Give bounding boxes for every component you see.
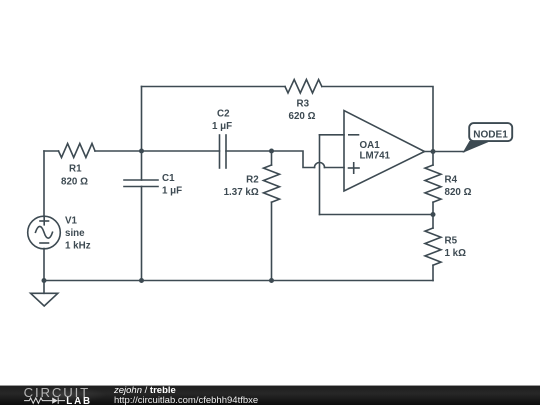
wire: hop to op-amp + input	[325, 167, 345, 169]
svg-text:LM741: LM741	[360, 151, 391, 162]
wire: left vertical from main node to V1 top	[43, 151, 45, 217]
svg-text:R4: R4	[445, 175, 458, 186]
wire: R1 to node A	[95, 150, 142, 152]
wire: ground rail	[44, 280, 433, 282]
wire: top rail right of R3 down to output node	[322, 87, 433, 152]
svg-text:820 Ω: 820 Ω	[61, 177, 88, 188]
svg-text:V1: V1	[65, 216, 78, 227]
resistor R2	[264, 165, 280, 202]
logo CIRCUIT LAB	[0, 385, 100, 405]
wire: node B down R2 top lead	[271, 151, 273, 165]
svg-text:R1: R1	[69, 164, 82, 175]
resistor R4 top lead	[432, 152, 434, 166]
ground node dot C1	[139, 278, 144, 283]
op-amp plus symbol	[349, 163, 360, 173]
node B junction dot	[269, 149, 274, 154]
svg-text:sine: sine	[65, 228, 85, 239]
NODE1 flag box	[469, 123, 512, 141]
capacitor C2	[220, 135, 227, 168]
resistor R4	[425, 165, 441, 202]
ground node dot V1	[42, 278, 47, 283]
wire: feedback bottom rail to R4/R5 node	[320, 214, 434, 216]
wire: main horizontal left segment with R1 leads	[44, 150, 59, 152]
svg-text:NODE1: NODE1	[473, 130, 508, 141]
wire: V1 bottom to ground node	[43, 249, 45, 281]
wire: top vertical from node A up to top rail	[141, 87, 143, 152]
wire: feedback vertical to bottom rail	[319, 135, 321, 215]
wire hop over vertical feedback wire	[315, 163, 325, 168]
wire: op-amp output to NODE1 flag	[425, 151, 465, 153]
footer url line	[114, 395, 258, 406]
svg-text:1 μF: 1 μF	[162, 186, 182, 197]
wire: node A to C2 left plate	[142, 150, 220, 152]
svg-text:C2: C2	[217, 108, 230, 119]
svg-text:1 kΩ: 1 kΩ	[445, 248, 467, 259]
op-amp minus symbol	[349, 134, 359, 136]
svg-text:820 Ω: 820 Ω	[445, 187, 472, 198]
op-amp OA1	[344, 111, 425, 192]
wire: R4 bottom to node C	[432, 202, 434, 214]
svg-text:R3: R3	[297, 99, 310, 110]
node A junction dot	[139, 149, 144, 154]
svg-text:C1: C1	[162, 173, 175, 184]
wire: C2 right plate to node B	[226, 150, 272, 152]
svg-text:620 Ω: 620 Ω	[289, 111, 316, 122]
footer bar	[0, 385, 540, 405]
node C junction dot	[431, 212, 436, 217]
resistor R5	[425, 228, 441, 265]
capacitor C1	[124, 151, 158, 281]
svg-text:LAB: LAB	[66, 396, 92, 405]
ground	[31, 281, 58, 307]
svg-text:OA1: OA1	[360, 140, 381, 151]
svg-text:R5: R5	[445, 236, 458, 247]
wire: node B to op-amp + input jog	[272, 151, 315, 168]
resistor R1	[59, 144, 96, 158]
svg-text:1 μF: 1 μF	[212, 121, 232, 132]
resistor R5 top lead	[432, 215, 434, 229]
wire: top rail left of R3	[142, 86, 286, 88]
footer credit line	[114, 385, 176, 396]
NODE1 flag pointer	[464, 142, 488, 152]
output node junction dot	[431, 149, 436, 154]
voltage source V1	[28, 216, 61, 249]
ground node dot R2	[269, 278, 274, 283]
svg-text:R2: R2	[246, 175, 259, 186]
svg-text:1.37 kΩ: 1.37 kΩ	[224, 187, 259, 198]
resistor R3	[285, 80, 322, 94]
wire: op-amp minus input stub	[320, 134, 345, 136]
wire: R2 bottom lead to ground rail	[271, 202, 273, 280]
wire: R5 bottom to ground rail	[432, 265, 434, 280]
svg-text:1 kHz: 1 kHz	[65, 241, 91, 252]
label texts	[61, 99, 508, 260]
